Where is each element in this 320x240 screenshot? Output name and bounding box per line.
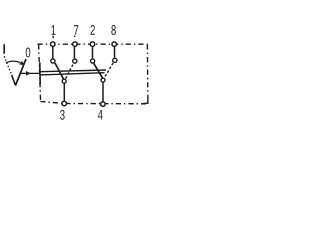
lever dotted position I <box>4 56 11 74</box>
contact circle 2 <box>91 59 95 63</box>
label 8 <box>111 25 115 35</box>
contact circle 1 <box>51 59 55 63</box>
motion arc arrowhead <box>19 61 24 65</box>
enclosure bottom-right corner join <box>142 100 148 104</box>
label 1 <box>51 25 55 35</box>
enclosure dash-dot frame right <box>146 44 149 103</box>
terminal 3 <box>62 101 67 106</box>
lower contact B <box>101 78 105 82</box>
tick above terminal 7 <box>74 36 76 37</box>
wire lower contact A to terminal 3 <box>63 83 65 101</box>
wire lower contact B to terminal 4 <box>102 82 104 101</box>
lever solid position 0 <box>15 59 26 86</box>
enclosure dash-dot frame bottom <box>40 101 148 103</box>
linkage bar lower line <box>40 73 104 75</box>
label 4 <box>98 110 103 120</box>
linkage left end plate <box>39 63 41 85</box>
label 2 <box>91 25 95 35</box>
contact circle 8 <box>113 58 117 62</box>
label 0 <box>26 48 31 58</box>
blade pole A solid (contact1 to lower A) <box>55 63 64 79</box>
enclosure dash-dot frame left <box>39 44 41 101</box>
wire terminal8 to contact8 <box>114 47 116 58</box>
terminal 4 <box>101 102 106 107</box>
terminal 7 <box>73 42 78 47</box>
blade pole B dashed alternate (contact8 to lower B) <box>105 63 113 77</box>
label 3 <box>60 110 65 120</box>
blade pole A dashed alternate (contact7 to lower A) <box>66 65 73 79</box>
wire terminal1 to contact1 <box>52 47 54 59</box>
terminal 8 <box>112 42 117 47</box>
terminal 1 <box>51 42 56 47</box>
contact circle 7 <box>73 59 77 63</box>
terminal 2 <box>90 42 95 47</box>
position mark I <box>3 44 5 54</box>
lower contact A <box>62 79 66 83</box>
wire terminal7 to contact7 <box>73 47 75 59</box>
motion arc <box>6 61 20 63</box>
wire terminal2 to contact2 <box>92 47 94 59</box>
tick above terminal 1 <box>52 36 54 38</box>
enclosure dash-dot frame top <box>38 43 148 45</box>
actuating shaft <box>20 72 40 74</box>
linkage bar upper line <box>40 70 106 72</box>
blade pole B solid (contact2 to lower B) <box>94 63 103 77</box>
shaft arrowhead <box>26 71 31 76</box>
lever pivot solid segment <box>12 75 16 85</box>
label 7 <box>74 25 78 35</box>
